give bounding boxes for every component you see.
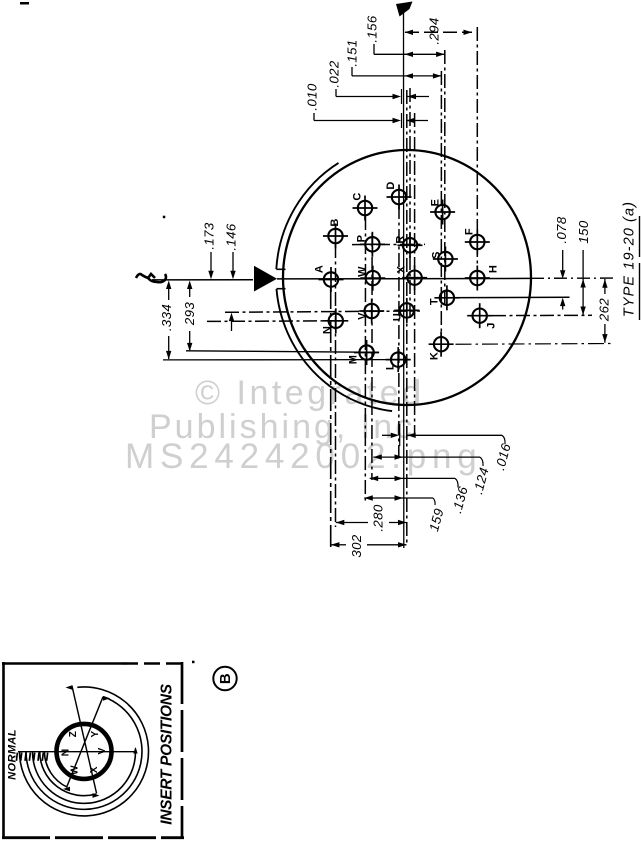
contact X	[396, 265, 428, 290]
row line K	[429, 343, 613, 346]
svg-text:B: B	[329, 218, 341, 226]
svg-text:W: W	[357, 266, 369, 277]
contact R	[395, 233, 423, 258]
label TYPE 19-20 (a)	[622, 201, 640, 320]
row line V-U	[225, 311, 420, 312]
row line P-R	[352, 243, 425, 245]
contact M	[348, 340, 380, 365]
column line A	[330, 287, 332, 550]
insert positions box border bottom	[2, 836, 184, 839]
svg-text:S: S	[431, 251, 443, 259]
index line horizontal	[18, 747, 138, 754]
horizontal centerline (left of circle)	[152, 279, 253, 281]
dimension .150	[576, 220, 591, 315]
rotation chord line B	[63, 696, 110, 792]
insert ring	[57, 724, 112, 779]
svg-text:.022: .022	[326, 60, 341, 88]
contact A	[314, 265, 344, 292]
view marker B	[213, 667, 236, 690]
svg-text:E: E	[430, 199, 442, 207]
svg-text:M: M	[348, 355, 360, 365]
dimension .010	[304, 83, 428, 128]
contact H	[465, 265, 500, 291]
contact C	[352, 192, 378, 220]
svg-text:D: D	[385, 181, 397, 189]
connector insert face circle	[283, 150, 531, 405]
polarizing key triangle	[254, 266, 277, 292]
svg-text:V: V	[357, 312, 369, 320]
dimension .302	[331, 534, 407, 557]
dimension .151	[344, 39, 441, 78]
row line L	[163, 359, 410, 361]
svg-text:.280: .280	[370, 504, 385, 532]
dimension .136	[370, 476, 471, 515]
svg-text:262: 262	[596, 298, 611, 322]
rotation arc to X	[40, 751, 97, 795]
svg-text:.334: .334	[159, 304, 174, 331]
svg-text:TYPE 19-20 (a): TYPE 19-20 (a)	[622, 201, 638, 317]
svg-text:302: 302	[349, 534, 364, 557]
centerline symbol left	[136, 274, 166, 282]
scan speck 2	[192, 661, 195, 664]
svg-text:B: B	[217, 673, 234, 684]
rotation arc to Y	[26, 697, 142, 810]
contact V	[357, 299, 385, 324]
column line B-N	[335, 244, 337, 527]
svg-text:INSERT POSITIONS: INSERT POSITIONS	[159, 683, 176, 824]
rotation arc to W	[45, 751, 68, 787]
column line D-L	[398, 205, 400, 458]
rotation chord line A	[66, 685, 100, 798]
leader arrow at row V	[229, 313, 234, 331]
row line T	[437, 296, 570, 298]
svg-text:150: 150	[576, 220, 591, 243]
column line X	[414, 113, 416, 435]
dimension .173	[201, 222, 216, 279]
dimension .078	[554, 216, 569, 309]
column line R	[409, 88, 411, 318]
contact E	[430, 199, 456, 225]
contact D	[385, 181, 412, 209]
contact B	[323, 218, 348, 248]
svg-text:.294: .294	[426, 17, 441, 44]
rotation arc to V	[32, 749, 135, 804]
svg-text:Z: Z	[68, 731, 79, 738]
contact J	[467, 303, 497, 329]
dimension .262	[596, 279, 611, 343]
svg-text:R: R	[395, 235, 407, 243]
svg-text:P: P	[356, 235, 368, 243]
svg-text:N: N	[59, 748, 71, 756]
column line C-M	[364, 216, 366, 503]
insert positions box border top	[2, 662, 122, 665]
horizontal centerline (through circle)	[277, 277, 531, 280]
column line E-K	[440, 71, 442, 352]
svg-text:.173: .173	[201, 222, 216, 250]
contact K	[429, 332, 454, 360]
shell outer arc lower segment	[277, 289, 393, 411]
svg-text:C: C	[352, 192, 364, 200]
scan speck 1	[163, 216, 166, 219]
vertical centerline	[403, 13, 405, 548]
keyway gap cap top	[276, 268, 285, 270]
svg-text:L: L	[385, 363, 397, 370]
column line S-T	[444, 50, 446, 306]
contact N	[322, 308, 349, 334]
contact L	[385, 347, 411, 372]
svg-text:A: A	[314, 265, 326, 273]
svg-text:N: N	[322, 326, 334, 334]
contact T	[429, 285, 460, 310]
svg-text:© Integrated: © Integrated	[195, 374, 425, 412]
normal position hatch ticks	[16, 753, 47, 761]
dimension .156	[364, 15, 444, 57]
column line U	[406, 90, 408, 544]
dimension .293	[182, 281, 197, 352]
svg-text:X: X	[396, 265, 408, 273]
column line F-H	[476, 27, 478, 286]
contact P	[356, 232, 385, 257]
svg-text:F: F	[464, 228, 476, 235]
svg-text:.156: .156	[364, 15, 379, 43]
keyway gap cap bottom	[277, 288, 286, 290]
dimension .016	[382, 424, 514, 472]
svg-text:J: J	[486, 322, 498, 329]
svg-text:293: 293	[182, 302, 197, 326]
svg-text:W: W	[70, 765, 81, 775]
rotation arc to Z	[19, 687, 148, 816]
horizontal centerline (right of circle)	[531, 277, 613, 279]
row line N	[207, 320, 346, 323]
row line M	[186, 351, 379, 353]
dimension .159	[364, 495, 446, 533]
row line J	[468, 314, 592, 316]
centerline symbol top	[396, 2, 413, 17]
dimension .124	[373, 454, 491, 496]
column line P-W-V	[371, 233, 373, 480]
dimension .294	[405, 17, 473, 44]
dimension .280	[336, 504, 407, 532]
svg-text:.146: .146	[223, 223, 238, 251]
svg-text:.078: .078	[554, 216, 569, 244]
svg-text:.151: .151	[344, 39, 359, 66]
svg-text:X: X	[89, 766, 100, 773]
svg-text:H: H	[488, 265, 500, 273]
insert positions box border right	[181, 662, 184, 839]
scan speck 3	[20, 2, 29, 5]
shell outer arc upper segment	[276, 163, 338, 269]
contact F	[464, 228, 490, 255]
svg-text:Y: Y	[90, 730, 101, 737]
svg-text:K: K	[429, 352, 441, 360]
dimension .146	[223, 223, 238, 279]
dimension .022	[326, 60, 429, 104]
dimension .334	[159, 281, 174, 360]
insert positions box border left	[2, 662, 5, 839]
svg-text:U: U	[392, 313, 404, 321]
contact S	[431, 247, 458, 272]
svg-text:.010: .010	[304, 83, 319, 111]
contact U	[392, 298, 420, 323]
svg-text:V: V	[96, 747, 108, 754]
svg-text:T: T	[429, 298, 441, 305]
contact W	[357, 266, 386, 291]
